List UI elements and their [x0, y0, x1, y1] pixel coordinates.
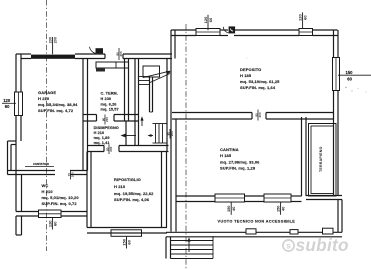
svg-text:TERRAPIENO: TERRAPIENO: [319, 146, 323, 172]
svg-text:H 210: H 210: [114, 184, 126, 189]
svg-text:60: 60: [52, 221, 57, 226]
svg-text:60: 60: [347, 76, 352, 81]
svg-text:GARAGE: GARAGE: [38, 90, 56, 95]
svg-text:mq. 6,26: mq. 6,26: [101, 103, 117, 107]
svg-text:s: s: [286, 241, 291, 251]
svg-text:SUP.FIN. mq. 0,72: SUP.FIN. mq. 0,72: [42, 201, 78, 206]
svg-text:230: 230: [49, 37, 53, 43]
svg-text:60: 60: [126, 239, 131, 244]
svg-text:SUP.FIN. mq. 4,06: SUP.FIN. mq. 4,06: [114, 197, 150, 202]
svg-text:200: 200: [258, 112, 262, 117]
svg-text:DISIMPEGNO: DISIMPEGNO: [94, 126, 119, 130]
svg-text:CANTINA: CANTINA: [220, 147, 239, 152]
svg-text:200: 200: [119, 51, 123, 56]
svg-text:H 230: H 230: [101, 97, 112, 101]
svg-text:SUP.FIN. mq. 4,72: SUP.FIN. mq. 4,72: [38, 108, 74, 113]
svg-text:40: 40: [280, 207, 285, 211]
svg-text:200: 200: [71, 172, 75, 177]
svg-text:mq. 35,34/mq. 38,94: mq. 35,34/mq. 38,94: [38, 102, 78, 107]
svg-text:120: 120: [3, 98, 11, 103]
svg-text:C. TERM.: C. TERM.: [101, 92, 118, 96]
svg-text:H 185: H 185: [240, 73, 252, 78]
svg-text:SUP.FIN. mq. 1,28: SUP.FIN. mq. 1,28: [220, 166, 256, 171]
svg-text:H 210: H 210: [42, 189, 54, 194]
svg-text:60: 60: [5, 104, 10, 109]
svg-text:VUOTO TECNICO NON ACCESSIBILE: VUOTO TECNICO NON ACCESSIBILE: [218, 220, 296, 224]
svg-text:H 185: H 185: [220, 153, 232, 158]
svg-text:60: 60: [208, 17, 213, 22]
svg-text:WC: WC: [42, 183, 49, 188]
svg-text:mq. 53,19/mq. 61,25: mq. 53,19/mq. 61,25: [240, 79, 280, 84]
svg-text:H 210: H 210: [94, 131, 105, 135]
svg-text:150: 150: [346, 70, 354, 75]
svg-text:200: 200: [109, 146, 113, 151]
svg-text:CONTATORI: CONTATORI: [33, 162, 49, 166]
svg-text:H 210: H 210: [38, 96, 50, 101]
svg-text:200: 200: [105, 117, 109, 122]
svg-text:SUP.FIN. mq. 1,64: SUP.FIN. mq. 1,64: [240, 85, 276, 90]
svg-text:RIPOSTIGLIO: RIPOSTIGLIO: [114, 177, 141, 182]
svg-text:200: 200: [53, 37, 57, 43]
svg-text:mq. 1,41: mq. 1,41: [94, 141, 110, 145]
svg-text:60: 60: [303, 15, 308, 20]
svg-text:40: 40: [231, 207, 236, 211]
svg-text:mq. 15,57: mq. 15,57: [101, 108, 119, 112]
svg-text:mq. 27,98/mq. 33,06: mq. 27,98/mq. 33,06: [220, 160, 260, 165]
svg-text:DEPOSITO: DEPOSITO: [240, 67, 261, 72]
svg-text:mq. 1,89: mq. 1,89: [94, 136, 110, 140]
svg-text:mq. 19,55/mq. 22,62: mq. 19,55/mq. 22,62: [114, 191, 154, 196]
svg-text:subito: subito: [296, 235, 349, 255]
svg-text:mq. 5,01/mq. 10,20: mq. 5,01/mq. 10,20: [42, 195, 80, 200]
